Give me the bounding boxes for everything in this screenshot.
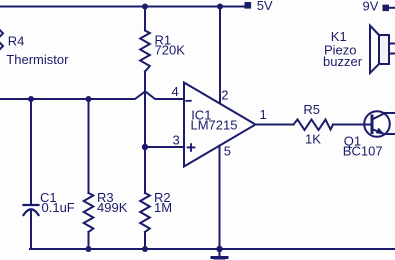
wire top 5V rail <box>0 6 245 8</box>
ground symbol <box>219 249 221 256</box>
buzzer K1 body <box>379 35 389 64</box>
wire 9V stub <box>389 7 395 9</box>
transistor Q1 emitter arrow <box>376 128 385 135</box>
svg-text:R5: R5 <box>303 102 320 117</box>
transistor Q1 emitter <box>372 129 384 134</box>
resistor R2 <box>144 147 146 193</box>
resistor R3 <box>88 99 90 193</box>
op-amp plus sign <box>188 146 195 148</box>
node C1 top junction <box>28 96 34 102</box>
svg-text:720K: 720K <box>155 43 186 58</box>
5V terminal square <box>245 2 252 9</box>
node top rail pin2 junction <box>217 4 223 10</box>
svg-text:3: 3 <box>173 133 180 148</box>
svg-text:Thermistor: Thermistor <box>6 52 69 67</box>
wire R5 to base <box>333 124 371 126</box>
svg-text:499K: 499K <box>97 200 128 215</box>
wire emitter out <box>385 133 395 135</box>
node top rail R1 junction <box>142 4 148 10</box>
node R1-R2-pin3 junction <box>142 144 148 150</box>
wire op-amp output <box>256 124 294 126</box>
wire pin2 <box>219 7 221 104</box>
svg-text:R4: R4 <box>8 33 25 48</box>
wire middle rail with hop over R1-R2 line <box>0 92 184 99</box>
svg-text:buzzer: buzzer <box>323 54 363 69</box>
svg-text:9V: 9V <box>363 0 379 14</box>
9V terminal square <box>383 5 390 12</box>
op-amp minus sign <box>186 100 191 102</box>
resistor R1 <box>144 7 146 31</box>
wire pin3 <box>145 146 184 148</box>
transistor Q1 base bar <box>371 116 374 133</box>
buzzer K1 cone <box>370 26 379 74</box>
thermistor R4 (clipped at left edge) <box>0 30 3 36</box>
node R3 bottom junction <box>86 246 92 252</box>
node R2 bottom junction <box>142 246 148 252</box>
svg-text:5V: 5V <box>257 0 273 13</box>
svg-text:2: 2 <box>221 88 228 103</box>
transistor Q1 collector <box>372 113 385 120</box>
resistor R5 <box>294 120 334 131</box>
wire collector out <box>385 112 395 114</box>
svg-text:4: 4 <box>172 84 179 99</box>
svg-text:0.1uF: 0.1uF <box>42 200 75 215</box>
node pin5 bottom junction <box>216 246 222 252</box>
svg-text:1: 1 <box>260 107 267 122</box>
svg-text:BC107: BC107 <box>343 144 383 159</box>
node R3 top junction <box>86 96 92 102</box>
wire bottom ground rail <box>30 248 395 250</box>
buzzer pin top <box>389 43 395 45</box>
svg-text:1K: 1K <box>305 132 321 147</box>
buzzer pin bottom <box>389 53 395 55</box>
svg-text:LM7215: LM7215 <box>191 118 238 133</box>
svg-text:5: 5 <box>224 143 231 158</box>
transistor Q1 circle <box>364 111 390 137</box>
capacitor C1 <box>30 99 32 204</box>
op-amp U1 triangle <box>184 83 256 167</box>
wire pin5 <box>219 146 221 250</box>
svg-text:1M: 1M <box>154 200 172 215</box>
